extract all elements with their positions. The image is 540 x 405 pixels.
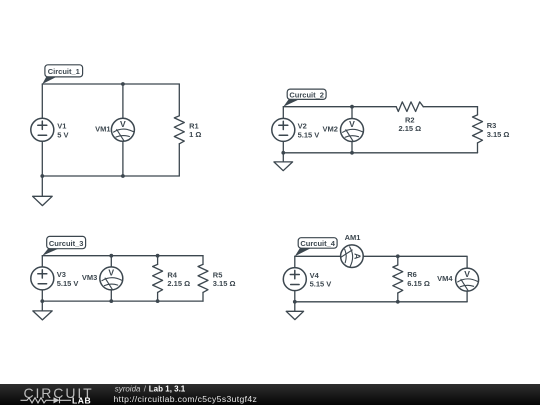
label V2 value: [298, 122, 320, 140]
node junction ground circuit2: [281, 151, 285, 155]
svg-text:R6: R6: [407, 270, 417, 279]
svg-text:V3: V3: [57, 270, 66, 279]
wire top circuit2: [283, 106, 477, 108]
svg-text:VM1: VM1: [95, 124, 110, 133]
ground circuit1: [33, 176, 53, 206]
node junction ground circuit4: [293, 300, 297, 304]
node junction R4 bottom: [156, 299, 160, 303]
label R4 value: [167, 271, 190, 289]
svg-text:V1: V1: [57, 122, 66, 131]
svg-text:2.15 Ω: 2.15 Ω: [167, 279, 190, 288]
label Circuit_1: [42, 65, 82, 84]
footer title text: [114, 385, 258, 405]
node junction VM2 top: [350, 105, 354, 109]
svg-text:R3: R3: [487, 121, 497, 130]
wire top circuit4 left: [295, 255, 341, 257]
wire bottom circuit2: [283, 152, 477, 154]
voltage source V2: [272, 118, 295, 141]
voltmeter VM3: [100, 267, 123, 290]
wire voltmeter VM1 branch: [122, 84, 124, 176]
svg-text:5.15 V: 5.15 V: [298, 130, 320, 139]
logo CircuitLab: [21, 385, 94, 405]
wire right circuit4: [466, 291, 468, 302]
resistor R2: [396, 102, 423, 112]
resistor R5: [198, 256, 208, 301]
resistor R6: [393, 256, 403, 302]
wire left circuit4: [294, 256, 296, 302]
label V3 value: [57, 270, 79, 288]
node junction R6 bottom: [396, 300, 400, 304]
svg-text:Curcuit_3: Curcuit_3: [49, 239, 84, 248]
label R2 value: [398, 116, 421, 134]
voltage source V4: [283, 268, 306, 291]
voltmeter VM2: [341, 119, 364, 142]
label R5 value: [213, 271, 236, 289]
label Curcuit_3: [42, 236, 85, 255]
svg-text:Lab 1, 3.1: Lab 1, 3.1: [149, 385, 186, 394]
svg-text:5.15 V: 5.15 V: [57, 279, 79, 288]
svg-text:5.15 V: 5.15 V: [310, 280, 332, 289]
svg-text:Curcuit_4: Curcuit_4: [300, 239, 335, 248]
wire top circuit4 right: [363, 256, 467, 268]
voltmeter VM4: [456, 268, 479, 291]
wire left circuit3: [41, 256, 43, 301]
node junction R4 top: [156, 254, 160, 258]
node junction VM1 bottom: [121, 174, 125, 178]
wire voltmeter VM3 branch: [110, 256, 112, 301]
node junction VM3 top: [109, 254, 113, 258]
wire voltmeter VM2 branch: [351, 107, 353, 153]
svg-text:Curcuit_2: Curcuit_2: [289, 90, 324, 99]
wire left circuit1: [41, 84, 43, 176]
svg-text:R1: R1: [189, 122, 199, 131]
resistor R1: [174, 84, 184, 176]
svg-text:1 Ω: 1 Ω: [189, 130, 201, 139]
svg-text:6.15 Ω: 6.15 Ω: [407, 279, 430, 288]
wire top circuit3: [42, 255, 203, 257]
node junction VM2 bottom: [350, 151, 354, 155]
wire top circuit1: [42, 83, 179, 85]
svg-text:V4: V4: [310, 271, 320, 280]
label V1 value: [57, 122, 68, 140]
svg-text:LAB: LAB: [72, 396, 91, 405]
svg-text:VM2: VM2: [322, 125, 337, 134]
svg-text:VM3: VM3: [82, 273, 97, 282]
label Curcuit_4: [295, 238, 337, 257]
label R6 value: [407, 270, 430, 288]
node junction R6 top: [396, 254, 400, 258]
resistor R3: [473, 107, 483, 153]
svg-text:VM4: VM4: [437, 274, 453, 283]
node junction ground circuit3: [40, 299, 44, 303]
svg-text:V: V: [120, 119, 126, 129]
svg-text:R2: R2: [405, 116, 415, 125]
label R1 value: [189, 122, 201, 140]
svg-text:http://circuitlab.com/c5cy5s3u: http://circuitlab.com/c5cy5s3utgf4z: [114, 394, 258, 404]
svg-text:3.15 Ω: 3.15 Ω: [487, 130, 510, 139]
label Curcuit_2: [283, 89, 326, 107]
node junction VM3 bottom: [109, 299, 113, 303]
svg-text:2.15 Ω: 2.15 Ω: [398, 124, 421, 133]
ammeter AM1: [341, 245, 364, 268]
svg-text:V: V: [349, 119, 355, 129]
voltmeter VM1: [111, 118, 134, 141]
svg-text:A: A: [353, 253, 363, 259]
ground circuit3: [33, 301, 52, 320]
wire bottom circuit4: [295, 301, 467, 303]
label V4 value: [310, 271, 332, 289]
ground circuit2: [274, 153, 293, 171]
resistor R4: [153, 256, 163, 301]
voltage source V3: [31, 267, 54, 290]
svg-text:R5: R5: [213, 271, 223, 280]
svg-text:Circuit_1: Circuit_1: [48, 67, 80, 76]
label R3 value: [487, 121, 510, 139]
footer background bar: [0, 384, 540, 405]
svg-text:R4: R4: [167, 271, 177, 280]
svg-text:5 V: 5 V: [57, 130, 68, 139]
wire left circuit2: [282, 107, 284, 153]
svg-text:syroida: syroida: [115, 385, 141, 394]
svg-text:V: V: [108, 268, 114, 278]
svg-text:3.15 Ω: 3.15 Ω: [213, 279, 236, 288]
node junction ground circuit1: [40, 174, 44, 178]
node junction VM1 top: [121, 82, 125, 86]
ground circuit4: [286, 302, 303, 320]
voltage source V1: [31, 118, 54, 141]
svg-text:AM1: AM1: [345, 233, 361, 242]
wire bottom circuit1: [42, 175, 179, 177]
wire bottom circuit3: [42, 300, 203, 302]
svg-text:V: V: [464, 269, 470, 279]
